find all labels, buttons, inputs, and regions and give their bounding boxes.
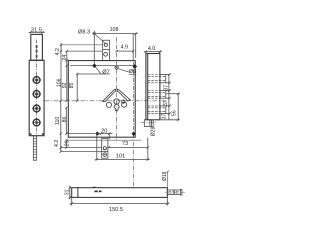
dimension 110 vline [60,100,62,153]
faceplate centerline vertical dashed [36,40,38,136]
hole circle d8 [115,66,118,69]
lower box centerline dash-dot [141,121,157,123]
euro cylinder profile stem [114,104,119,111]
dimension 4.9 [115,34,134,61]
svg-text:37: 37 [161,113,167,119]
bolt dim vline 37 column [166,73,171,120]
svg-text:Ø8.3: Ø8.3 [78,29,90,35]
faceplate foot block right [42,133,44,136]
svg-text:108: 108 [110,27,119,33]
lock case outline [68,61,135,138]
bottom view body [72,188,168,198]
svg-text:Ø18: Ø18 [162,171,168,181]
euro cylinder profile circle [114,99,119,104]
dimension 56 vline [160,93,180,122]
handle axis vertical dashed [132,62,134,190]
main horizontal centerline dashed [45,100,167,102]
svg-text:86: 86 [62,117,68,123]
svg-text:4.0: 4.0 [148,46,155,52]
left dim column: extension line A [61,44,103,46]
bracket hole circle lower [103,153,107,157]
dimension 31 [69,186,72,200]
svg-text:31: 31 [65,189,71,195]
dimension 108 [92,31,137,64]
left dim column: extension line B [67,50,103,52]
bolt hole circle 1 [32,76,41,85]
svg-text:26: 26 [64,140,70,146]
hole extension hline to diamond [66,133,95,135]
side view lower box [144,120,153,127]
dimension 73 [107,146,149,148]
extension hline y140.2 [66,139,141,141]
bottom view faceplate inner vline [77,188,79,198]
svg-text:150.5: 150.5 [109,207,123,213]
flank circle small upper right [122,100,125,103]
extension hline y151.4 [61,150,102,152]
svg-text:37: 37 [163,100,169,106]
cylinder cam roof band left [103,89,116,101]
dimension 20 [97,132,112,139]
bolt hole circle 2 [32,90,41,99]
side view faceplate inner edge [147,54,149,120]
label diameter 7 leader [96,67,101,74]
faceplate bar lower [29,60,44,135]
threaded rod below faceplate [33,136,36,160]
svg-text:85: 85 [69,83,75,89]
faceplate foot block left [29,133,31,136]
label diameter 7 underline [77,73,110,75]
faceplate slot dashed bold [36,45,38,59]
bottom bracket [102,139,108,159]
cylinder axis vertical dashed [116,37,118,140]
cylinder rod top view [167,189,182,195]
svg-text:92: 92 [62,82,68,88]
hole marker diamond d7 [92,63,97,68]
svg-text:31.5: 31.5 [31,28,42,34]
svg-text:4.2: 4.2 [55,48,61,55]
flank circle left [106,102,111,107]
svg-text:Ø28: Ø28 [150,127,156,137]
bolt band 2 [148,91,166,99]
svg-text:24: 24 [62,55,68,61]
hole marker diamond on axis [131,132,135,136]
dimension 85 vline [76,73,78,102]
svg-text:37: 37 [163,85,169,91]
bracket hole circle upper [103,147,106,150]
d18 extension vline [167,172,169,188]
svg-text:110: 110 [55,117,61,125]
bolt band 1 [148,75,166,83]
svg-text:56: 56 [172,110,178,116]
dimension 150.5 [70,197,170,205]
extension hline y147.8 long [61,147,102,149]
svg-text:101: 101 [116,153,125,159]
svg-text:20: 20 [101,129,107,135]
dimension 31.5 line [29,31,45,33]
dimension 86 vline [65,107,67,149]
dimension 24/92 shared vline [66,50,68,102]
bolt hole circle 4 [32,118,41,127]
svg-text:4.9: 4.9 [121,45,128,51]
bottom view slot dark [94,191,97,193]
hole marker diamond right [133,64,138,69]
cylinder cam roof band right [117,89,130,101]
dimension 4.0 [144,50,162,53]
case inner top line [70,65,133,67]
dimension 4.2/106 shared vline [60,43,62,102]
dimension 101 [95,135,150,161]
lug hole circle lower [104,52,108,56]
rod centerline dashed [165,191,185,193]
flank circle right [122,102,127,107]
svg-text:Ø7: Ø7 [102,69,109,75]
side view body [146,54,160,120]
hole marker diamond bottom [95,131,99,135]
bolt hole circle 3 [32,104,41,113]
cylinder fixing lug box [103,40,110,60]
svg-text:4.2: 4.2 [54,140,60,147]
faceplate bar upper [31,34,43,60]
lug hole circle upper [104,43,107,46]
bottom view top nub [93,187,96,188]
label diameter 8.3 leader [93,32,105,43]
svg-text:73: 73 [122,141,128,147]
bolt band 3 [148,106,166,114]
label diameter 8 underline [129,73,137,75]
label diameter 8 leader [118,69,129,72]
